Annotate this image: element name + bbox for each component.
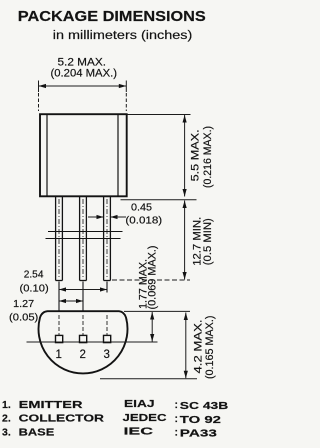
pin row horizontal line (27, 341, 158, 343)
dimension 1.27 line (59, 300, 83, 302)
svg-text:IEC: IEC (124, 426, 154, 438)
pin 1 square (56, 335, 63, 342)
svg-text:1.: 1. (2, 399, 11, 411)
pin center dash lines (59, 315, 107, 335)
svg-text:3: 3 (103, 349, 109, 361)
svg-text:1: 1 (55, 349, 61, 361)
svg-text:(0.05): (0.05) (9, 312, 38, 324)
extension lines lead centers below tips (59, 282, 107, 312)
svg-text:PA33: PA33 (180, 428, 217, 440)
svg-text:0.45: 0.45 (131, 201, 152, 213)
extension line package top right (128, 114, 191, 116)
extension line bottom view top right (124, 310, 190, 312)
extension line lead tips right (dashed) (112, 279, 190, 281)
svg-text:5.2 MAX.: 5.2 MAX. (58, 56, 107, 68)
lead 2 front view (80, 197, 87, 281)
svg-text:4.2 MAX.: 4.2 MAX. (193, 320, 205, 374)
svg-text:TO 92: TO 92 (180, 414, 221, 426)
package inner left line (46, 114, 48, 196)
dimension 1.77 vertical line (151, 312, 153, 342)
svg-text::: : (175, 399, 179, 411)
svg-text:COLLECTOR: COLLECTOR (19, 413, 105, 425)
svg-text:(0.018): (0.018) (125, 215, 162, 227)
svg-text:5.5 MAX.: 5.5 MAX. (190, 129, 202, 181)
svg-text:2: 2 (79, 349, 85, 361)
dimension 5.2 line (39, 81, 127, 112)
svg-text:(0.204 MAX.): (0.204 MAX.) (51, 68, 118, 80)
svg-text::: : (175, 427, 179, 439)
lead break lines (46, 232, 123, 239)
package inner right line (117, 114, 119, 196)
dimension 2.54 line (59, 289, 107, 291)
svg-text:(0.069 MAX.): (0.069 MAX.) (147, 246, 159, 310)
dimension 0.45 arrows (88, 216, 126, 218)
svg-text::: : (175, 413, 179, 425)
svg-text:EIAJ: EIAJ (124, 398, 155, 410)
svg-text:PACKAGE DIMENSIONS: PACKAGE DIMENSIONS (18, 8, 206, 25)
svg-text:BASE: BASE (19, 426, 55, 438)
dimension 5.2 arrows (39, 84, 127, 88)
pin 3 square (104, 335, 111, 342)
package body front view (40, 114, 127, 196)
svg-text:JEDEC: JEDEC (123, 412, 168, 424)
svg-text:(0.5 MIN): (0.5 MIN) (202, 218, 214, 265)
dimension 4.2 vertical line (185, 313, 187, 379)
extension line bottom view bottom right (100, 378, 197, 380)
svg-text:1.27: 1.27 (13, 298, 34, 310)
svg-text:3.: 3. (2, 426, 11, 438)
pin 2 square (80, 335, 87, 342)
svg-text:(0.216 MAX.): (0.216 MAX.) (202, 126, 214, 188)
svg-text:in millimeters (inches): in millimeters (inches) (53, 30, 193, 42)
bottom view body outline (38, 311, 127, 373)
dimension 5.5 vertical line (184, 115, 186, 197)
lead 3 front view (104, 197, 111, 281)
extension line package bottom right (121, 199, 197, 201)
lead 1 front view (56, 197, 63, 281)
svg-text:(0.10): (0.10) (20, 283, 49, 295)
svg-text:(0.165 MAX.): (0.165 MAX.) (204, 316, 216, 380)
dimension 12.7 vertical line (184, 201, 186, 280)
svg-text:2.: 2. (2, 413, 11, 425)
svg-text:SC 43B: SC 43B (180, 400, 229, 412)
svg-text:2.54: 2.54 (24, 269, 44, 281)
svg-text:EMITTER: EMITTER (19, 399, 83, 411)
